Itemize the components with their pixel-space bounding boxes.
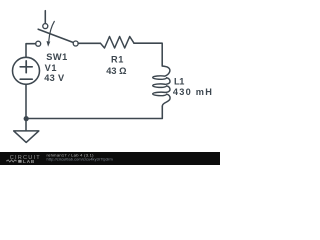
V1 plus sign	[20, 66, 32, 68]
junction dot node	[24, 116, 29, 121]
svg-text:R1: R1	[111, 55, 124, 65]
switch SW1 left throw terminal circle	[36, 41, 41, 46]
inductor L1 coil	[153, 66, 170, 106]
svg-text:V1: V1	[45, 63, 57, 73]
wire: switch common to resistor	[78, 42, 100, 44]
svg-text:430 mH: 430 mH	[173, 87, 213, 97]
resistor R1 zigzag	[100, 37, 134, 49]
svg-text:43 V: 43 V	[44, 73, 65, 83]
wire: V1 bottom to ground	[25, 84, 27, 130]
watermark logo LAB	[18, 160, 21, 163]
voltage source V1 circle	[13, 57, 40, 84]
svg-text:http://circuitlab.com/c/cu4ky3: http://circuitlab.com/c/cu4ky3r7tp3rm	[47, 157, 113, 162]
V1 minus sign	[20, 78, 32, 80]
wire: resistor to top-right corner and down	[134, 43, 162, 66]
wire: switch top stub	[44, 11, 46, 24]
watermark logo resistor zigzag	[6, 160, 17, 162]
switch SW1 top throw terminal circle	[43, 24, 48, 29]
switch SW1 common terminal circle	[73, 41, 78, 46]
svg-text:43 Ω: 43 Ω	[106, 66, 126, 76]
watermark bar	[0, 152, 220, 165]
svg-text:L1: L1	[174, 77, 184, 87]
svg-text:SW1: SW1	[46, 52, 68, 62]
ground symbol	[14, 131, 39, 143]
wire: V1 top to switch left throw	[26, 44, 36, 58]
switch SW1 actuation arrow	[49, 21, 55, 40]
wire: inductor bottom, bottom-right corner, bottom run to junction	[26, 106, 162, 119]
switch SW1 blade	[38, 29, 73, 42]
svg-text:LAB: LAB	[23, 159, 35, 164]
